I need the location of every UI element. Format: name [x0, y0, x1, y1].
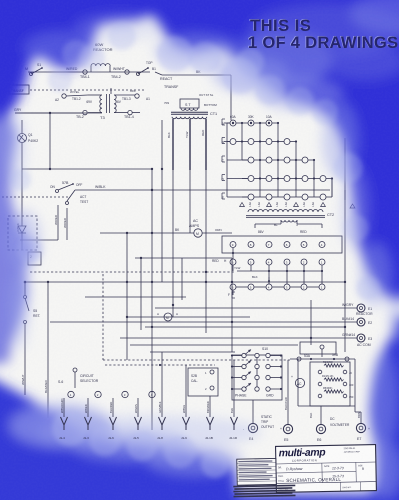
- terminal TB4-2: [111, 67, 129, 79]
- node terminal strip: [222, 236, 342, 253]
- transistor Q1: [18, 133, 39, 143]
- wire: [15, 112, 102, 114]
- transformer CT1: [167, 112, 217, 170]
- meter M2: [157, 312, 178, 321]
- terminal TB4-1: [66, 67, 90, 79]
- wire: [310, 300, 312, 345]
- wire: [145, 326, 345, 328]
- transformer CT2: [246, 210, 334, 235]
- terminal E4: [243, 400, 274, 441]
- label GRY: [14, 108, 22, 112]
- wire: [28, 71, 150, 73]
- node row H: [212, 248, 325, 284]
- wire W/BLK: [75, 185, 330, 191]
- terminal E2: [50, 317, 372, 326]
- switch S1: [25, 63, 43, 76]
- terminal TB-2: [15, 110, 87, 119]
- switch S5: [21, 281, 40, 395]
- label TRANSF: [9, 85, 29, 94]
- diode D1: [8, 216, 37, 250]
- switch S2: [137, 61, 157, 76]
- resistor network 53A: [290, 342, 355, 406]
- wire: [25, 281, 345, 283]
- node 2: [28, 252, 41, 265]
- wire: [126, 233, 128, 360]
- wire: [205, 170, 207, 333]
- transformer ST: [164, 93, 217, 110]
- wire: [344, 190, 346, 352]
- label REACT TRANSF: [160, 77, 179, 89]
- node fuse row: [240, 202, 355, 208]
- switch S-6 CIRCUIT SELECTOR: [58, 368, 155, 398]
- wire BK: [155, 70, 231, 120]
- wire: [103, 359, 290, 361]
- terminal TB1-1: [55, 90, 88, 102]
- wire dashed: [2, 196, 70, 198]
- wire: [85, 296, 186, 298]
- terminal E1: [155, 303, 373, 316]
- switch S2B CAL: [105, 364, 218, 396]
- wire: [181, 258, 183, 300]
- wire: [150, 351, 235, 353]
- terminal E5: [280, 360, 293, 442]
- wire: [22, 168, 153, 170]
- terminal TB1-3: [122, 89, 150, 101]
- wire W/RED 2: [63, 208, 67, 240]
- connector J row: [59, 398, 238, 440]
- switch S10 PHASE GRD: [231, 347, 282, 400]
- terminal E6: [309, 406, 350, 442]
- terminal E7: [355, 406, 370, 441]
- wire: [22, 113, 50, 222]
- wire: [110, 88, 112, 94]
- title block: [233, 445, 377, 498]
- reactor 60W: [91, 42, 113, 72]
- switch 57B: [50, 181, 88, 205]
- wire: [16, 223, 58, 250]
- node row F: [228, 277, 325, 298]
- wire: [189, 170, 191, 233]
- node grid: [222, 115, 345, 200]
- junction dots: [126, 168, 346, 339]
- wire: [30, 271, 235, 273]
- terminal E3: [120, 333, 372, 347]
- wire: [161, 120, 163, 282]
- wire: [128, 316, 250, 318]
- wire BLK/RED: [44, 281, 49, 418]
- meter AC2: [291, 375, 305, 388]
- wire: [102, 274, 104, 360]
- wire: [172, 170, 174, 317]
- terminal TB1-4: [124, 110, 140, 119]
- wire dashed: [30, 89, 145, 91]
- wire: [231, 258, 233, 352]
- wire: [130, 344, 298, 346]
- wire: [140, 258, 142, 330]
- wire W/RED: [54, 205, 58, 240]
- wire risers: [162, 352, 234, 398]
- wire: [135, 257, 232, 259]
- meter AC AMPS: [100, 219, 232, 237]
- transformer T3: [86, 94, 135, 120]
- wire: [151, 169, 153, 430]
